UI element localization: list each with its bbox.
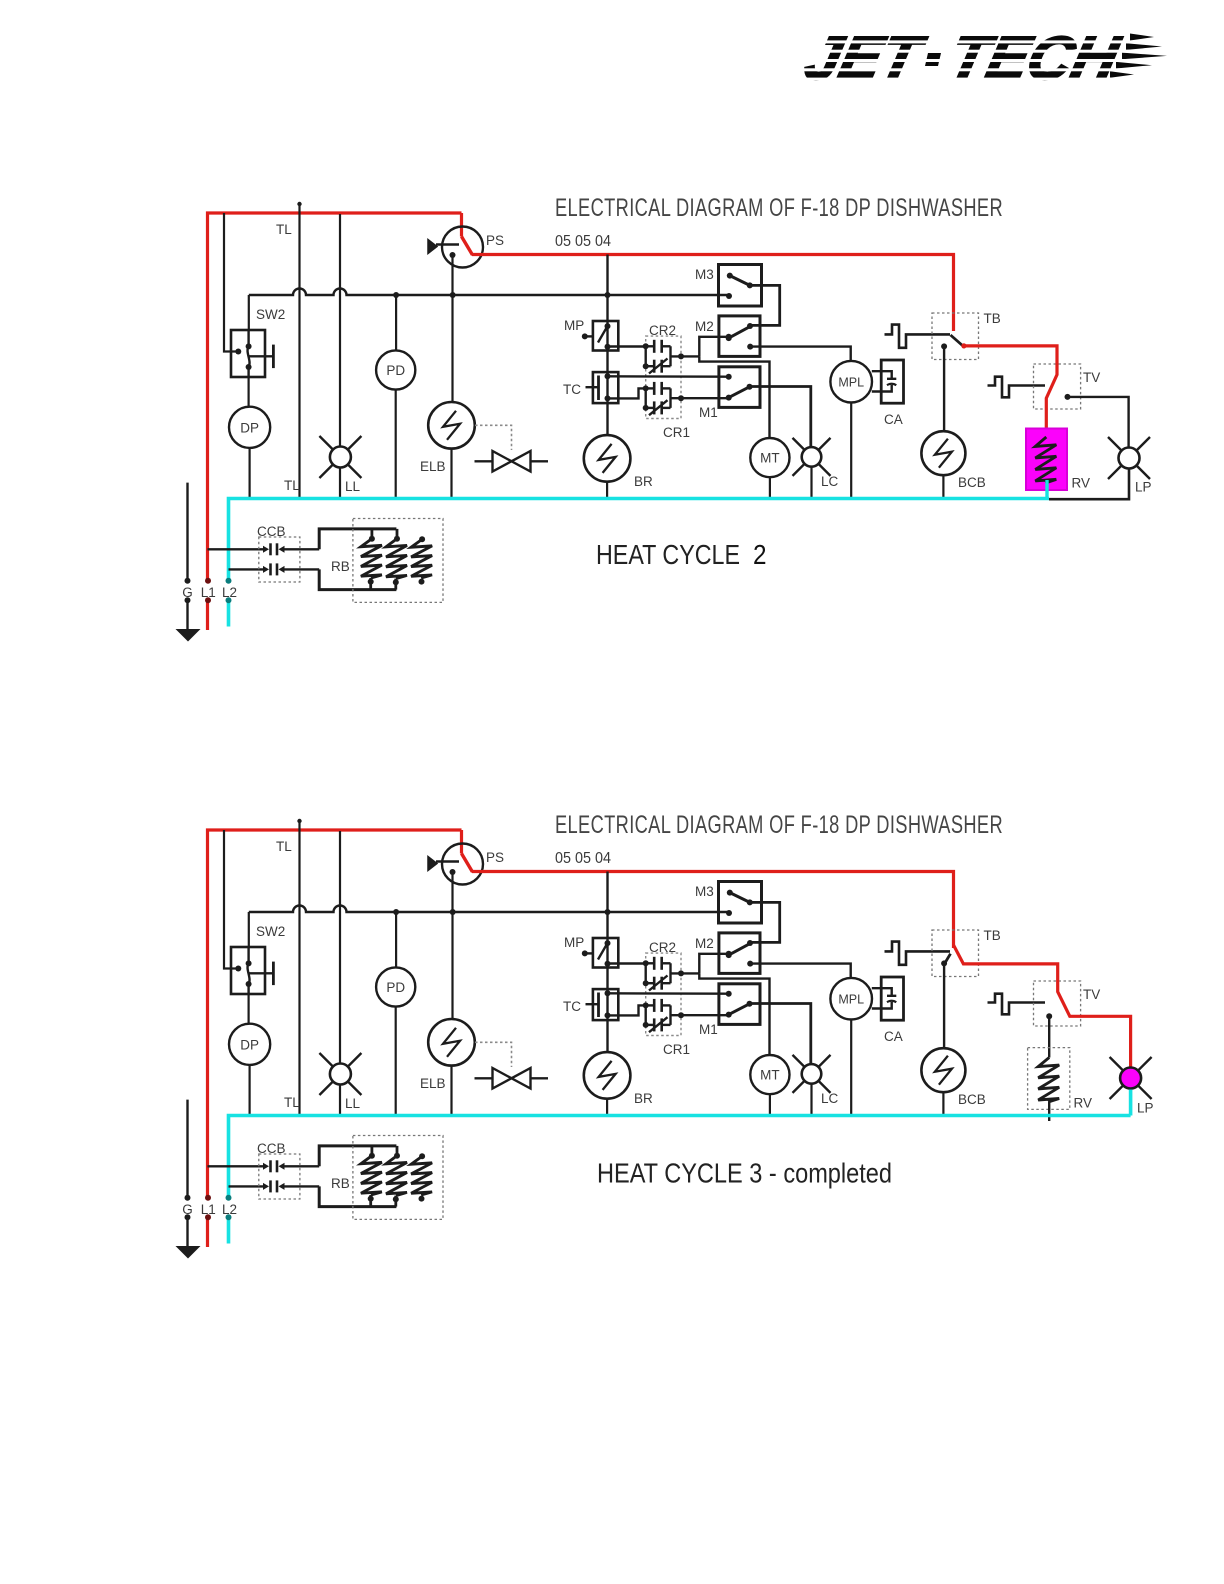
label M2: [695, 319, 714, 334]
switch SW2 box: [231, 947, 265, 994]
svg-text:G: G: [182, 585, 193, 600]
contact CR1-NC: [643, 1005, 671, 1032]
heater ELB: [428, 402, 475, 449]
svg-text:TECH: TECH: [943, 25, 1126, 93]
svg-text:M1: M1: [699, 405, 718, 420]
svg-text:BCB: BCB: [958, 1092, 986, 1107]
label TC: [563, 999, 581, 1014]
svg-text:M3: M3: [695, 267, 714, 282]
svg-text:MP: MP: [564, 935, 584, 950]
svg-text:M3: M3: [695, 884, 714, 899]
link ELB-valve (dashed): [475, 1042, 512, 1067]
contact CCB lower: [263, 563, 319, 575]
label M3: [695, 884, 714, 899]
label RB: [331, 1176, 350, 1191]
svg-text:TV: TV: [1083, 370, 1100, 385]
wire BR to neutral: [606, 1099, 608, 1114]
motor DP: [229, 1024, 270, 1065]
switch MP box: [593, 321, 618, 351]
wire red TB to TV to LP: [954, 945, 1131, 1067]
svg-text:PD: PD: [386, 980, 405, 995]
svg-text:LP: LP: [1135, 480, 1152, 495]
lamp LP: [1108, 437, 1150, 479]
wire L2 to CCB: [229, 568, 264, 570]
label SW2: [256, 924, 285, 939]
contactor M3 box: [719, 265, 762, 307]
wire MP to CR2: [605, 961, 646, 967]
label TV: [1083, 987, 1100, 1002]
caption HEAT CYCLE: [597, 1158, 892, 1189]
contactor M3 contact: [726, 273, 753, 299]
svg-text:MT: MT: [760, 451, 780, 466]
motor MPL: [830, 361, 872, 403]
svg-text:LC: LC: [821, 474, 839, 489]
svg-text:MT: MT: [760, 1068, 780, 1083]
node bus-ELB junction: [450, 909, 456, 915]
svg-text:MP: MP: [564, 318, 584, 333]
svg-text:TB: TB: [984, 928, 1001, 943]
contact CCB upper: [263, 1160, 319, 1172]
node L2 marks: [226, 578, 232, 604]
resistor RV (energised): [1026, 429, 1067, 491]
label MP: [564, 318, 584, 333]
wire CR2 to M2: [699, 334, 731, 357]
svg-text:05 05 04: 05 05 04: [555, 850, 611, 867]
label PS: [486, 233, 504, 248]
label CA: [884, 1029, 903, 1044]
ground lead: [186, 483, 188, 629]
wire MP to TC: [606, 968, 608, 990]
label LC: [821, 474, 839, 489]
wire ELB to neutral: [450, 449, 452, 497]
ground symbol: [176, 629, 201, 642]
switch PS body: [442, 844, 483, 885]
motor PD: [376, 350, 415, 389]
wire LP to neutral (cyan): [1129, 1090, 1133, 1116]
svg-text:LL: LL: [345, 1096, 361, 1111]
svg-text:CCB: CCB: [257, 1141, 286, 1156]
capacitor CA leads: [872, 988, 897, 1008]
contact CCB upper: [263, 543, 319, 555]
svg-text:RB: RB: [331, 1176, 350, 1191]
wire control bus: [249, 289, 729, 296]
wire red heat rail: [472, 255, 954, 332]
wire TC to BR: [606, 403, 608, 435]
label ELB: [420, 459, 446, 474]
switch SW2 box: [231, 330, 265, 377]
node bus-PD junction: [393, 909, 399, 915]
logo JET-TECH: [780, 25, 1180, 93]
wire bus to SW2: [248, 295, 250, 330]
label RV: [1074, 1096, 1093, 1111]
svg-text:TC: TC: [563, 999, 581, 1014]
label CR1: [663, 1042, 690, 1057]
wire TV to LP: [1068, 397, 1129, 447]
date label 05 05 04: [555, 233, 611, 250]
label TL bottom: [284, 478, 300, 493]
wire neutral bus (cyan): [229, 1116, 1131, 1244]
wire LL line: [339, 831, 341, 1114]
resistor RB element 3: [411, 1153, 432, 1201]
wire RB feed upper: [319, 1146, 396, 1166]
node G marks: [185, 1195, 191, 1221]
label LP: [1137, 1101, 1154, 1116]
label BCB: [958, 1092, 986, 1107]
wire red heat rail: [472, 872, 954, 949]
svg-text:CA: CA: [884, 412, 903, 427]
lamp LC: [793, 438, 831, 476]
wire red to MP column: [606, 872, 608, 939]
label G: [182, 585, 193, 600]
svg-text:M1: M1: [699, 1022, 718, 1037]
label CCB: [257, 524, 286, 539]
label L2: [222, 585, 237, 600]
node TL top tick: [297, 819, 301, 823]
svg-text:2: 2: [753, 539, 767, 570]
node PS output: [450, 869, 456, 875]
wire PD to neutral: [395, 1007, 397, 1114]
contact CCB lower: [263, 1180, 319, 1192]
switch TV box (dotted): [1034, 364, 1081, 409]
wire TL line: [298, 203, 300, 498]
wire TB to BCB: [943, 346, 945, 431]
wire bus to SW2: [248, 912, 250, 947]
svg-text:JET: JET: [799, 25, 932, 93]
node TB common: [941, 343, 947, 349]
heater BR: [584, 435, 631, 482]
wire red to MP column: [606, 255, 608, 322]
svg-text:TV: TV: [1083, 987, 1100, 1002]
wire CR2 to M2: [699, 951, 731, 974]
contactor M1 box: [719, 367, 760, 408]
actuator TB squiggle: [885, 942, 951, 965]
label M1: [699, 1022, 718, 1037]
label CR2: [649, 323, 676, 338]
svg-text:PS: PS: [486, 233, 504, 248]
wire MP to TC: [606, 351, 608, 373]
svg-text:05 05 04: 05 05 04: [555, 233, 611, 250]
actuator TV squiggle: [988, 994, 1046, 1015]
node bus-PD junction: [393, 292, 399, 298]
motor MPL: [830, 978, 872, 1020]
wire LC to neutral: [810, 467, 812, 497]
label M1: [699, 405, 718, 420]
wire BCB to neutral: [942, 475, 944, 497]
contactor M1 box: [719, 984, 760, 1025]
label CR2: [649, 940, 676, 955]
wire red PS feed drop: [460, 830, 463, 854]
wire CR2 to MT: [699, 973, 769, 1055]
wire MP to CR2: [605, 344, 646, 350]
svg-text:LL: LL: [345, 479, 361, 494]
ground symbol: [176, 1246, 201, 1259]
label TC: [563, 382, 581, 397]
wire L2 to CCB: [229, 1185, 264, 1187]
wire red PS feed drop: [460, 213, 463, 237]
ground lead: [186, 1100, 188, 1246]
svg-text:RV: RV: [1072, 476, 1091, 491]
svg-text:ELB: ELB: [420, 1076, 446, 1091]
node SW2 left contact: [235, 966, 241, 972]
svg-text:TB: TB: [984, 311, 1001, 326]
wire RB feed upper: [319, 529, 396, 549]
label TB: [984, 311, 1001, 326]
wire TC to M1: [608, 375, 729, 378]
svg-text:DP: DP: [240, 421, 259, 436]
wire L1 hot rail (red): [208, 830, 462, 1247]
contactor M2 box: [719, 933, 760, 974]
contact CR1-NC: [643, 388, 671, 415]
node TV-RV contact: [1046, 1013, 1052, 1019]
svg-text:HEAT CYCLE 3 - completed: HEAT CYCLE 3 - completed: [597, 1158, 892, 1189]
switch TB blade: [951, 335, 964, 346]
switch TV box (dotted): [1034, 981, 1081, 1026]
wire MPL to neutral: [850, 1020, 852, 1115]
svg-text:CR1: CR1: [663, 425, 690, 440]
switch TB box (dotted): [932, 930, 979, 977]
heater BCB: [921, 1048, 965, 1092]
wire LP to neutral: [1049, 470, 1129, 500]
contactor M3 contact: [726, 890, 753, 916]
contact CR1-NO: [643, 382, 671, 395]
breaker CCB box (dotted): [259, 537, 300, 582]
svg-text:CR2: CR2: [649, 940, 676, 955]
svg-text:G: G: [182, 1202, 193, 1217]
switch MP box: [593, 938, 618, 968]
resistor RB element 3: [411, 536, 432, 584]
switch SW2 contacts: [246, 947, 274, 994]
label TL bottom: [284, 1095, 300, 1110]
thermostat TC box: [593, 989, 618, 1020]
switch TB box (dotted): [932, 313, 979, 360]
resistor bank RB box (dotted): [353, 519, 443, 603]
svg-text:MPL: MPL: [838, 993, 864, 1007]
label BCB: [958, 475, 986, 490]
label TB: [984, 928, 1001, 943]
label RV: [1072, 476, 1091, 491]
contact CR2-NO: [643, 957, 671, 970]
label G: [182, 1202, 193, 1217]
thermostat TC box: [593, 372, 618, 403]
valve symbol: [475, 451, 549, 472]
svg-text:TL: TL: [284, 478, 300, 493]
switch PS port: [428, 240, 459, 254]
switch PS blade (red): [462, 237, 473, 256]
wire TC to CR1: [608, 1005, 646, 1015]
switch MP contact: [582, 321, 611, 351]
label LL: [345, 479, 361, 494]
node SW2 left contact: [235, 349, 241, 355]
label BR: [634, 474, 653, 489]
contact CR2-NC: [643, 963, 671, 990]
label TL top: [276, 222, 292, 237]
switch PS blade (red): [462, 854, 473, 873]
svg-text:M2: M2: [695, 936, 714, 951]
svg-text:CA: CA: [884, 1029, 903, 1044]
svg-text:L1: L1: [201, 585, 216, 600]
wire bus to PD: [395, 295, 397, 350]
wire MPL to neutral: [850, 403, 852, 498]
wire M1 to LC: [750, 387, 811, 447]
node TV-LP contact: [1065, 394, 1071, 400]
wire L1 hot rail (red): [208, 213, 462, 630]
wire bus to PD: [395, 912, 397, 967]
heater BR: [584, 1052, 631, 1099]
wire M3 output: [747, 902, 780, 946]
relay box CR2/CR1 (dashed): [646, 336, 681, 418]
resistor RB element 2: [386, 1146, 407, 1207]
wire MT to neutral: [769, 477, 771, 497]
wire RB feed lower: [319, 1186, 396, 1206]
heater BCB: [921, 431, 965, 475]
wire neutral bus (cyan): [229, 499, 1050, 627]
date label 05 05 04: [555, 850, 611, 867]
svg-text:LP: LP: [1137, 1101, 1154, 1116]
wire control bus: [249, 906, 729, 913]
label CR1: [663, 425, 690, 440]
svg-text:TL: TL: [276, 839, 292, 854]
contactor M2 contact: [726, 944, 754, 967]
svg-text:RB: RB: [331, 559, 350, 574]
svg-text:BR: BR: [634, 474, 653, 489]
label PS: [486, 850, 504, 865]
switch MP contact: [582, 938, 611, 968]
label BR: [634, 1091, 653, 1106]
wire TC to BR: [606, 1020, 608, 1052]
svg-text:SW2: SW2: [256, 924, 285, 939]
svg-text:L2: L2: [222, 585, 237, 600]
label CA: [884, 412, 903, 427]
wire BR to neutral: [606, 482, 608, 497]
svg-text:SW2: SW2: [256, 307, 285, 322]
svg-text:BR: BR: [634, 1091, 653, 1106]
relay box CR2/CR1 (dashed): [646, 953, 681, 1035]
resistor RB element 1: [361, 1146, 382, 1207]
svg-text:RV: RV: [1074, 1096, 1093, 1111]
label LP: [1135, 480, 1152, 495]
wire CR2 output: [671, 346, 700, 366]
svg-text:DP: DP: [240, 1038, 259, 1053]
label L1: [201, 585, 216, 600]
lamp LP (energised): [1110, 1057, 1152, 1099]
wire L1 to CCB: [208, 548, 264, 550]
lamp LC: [793, 1055, 831, 1093]
motor MT: [750, 438, 789, 477]
valve symbol: [475, 1068, 549, 1089]
resistor bank RB box (dotted): [353, 1136, 443, 1220]
motor DP: [229, 407, 270, 448]
contactor M3 box: [719, 882, 762, 924]
node TL top tick: [297, 202, 301, 206]
wire DP to neutral: [249, 448, 251, 497]
svg-text:MPL: MPL: [838, 376, 864, 390]
wire TC to CR1: [608, 388, 646, 398]
wire MT to neutral: [769, 1094, 771, 1114]
title text: [555, 194, 1003, 222]
capacitor CA box: [881, 977, 903, 1020]
actuator TB squiggle: [885, 325, 951, 348]
contactor M2 box: [719, 316, 760, 357]
contactor M2 contact: [726, 327, 754, 350]
wire PS to ELB: [451, 255, 453, 402]
wire M3 output: [747, 285, 780, 329]
label RB: [331, 559, 350, 574]
label TL top: [276, 839, 292, 854]
label ELB: [420, 1076, 446, 1091]
svg-text:ELB: ELB: [420, 459, 446, 474]
link ELB-valve (dashed): [475, 425, 512, 450]
motor MT: [750, 1055, 789, 1094]
node L1 marks: [205, 1195, 211, 1221]
wire CR1 output: [671, 388, 729, 408]
svg-text:BCB: BCB: [958, 475, 986, 490]
node L1 marks: [205, 578, 211, 604]
wire TV to RV: [1048, 1016, 1050, 1057]
svg-text:LC: LC: [821, 1091, 839, 1106]
label TV: [1083, 370, 1100, 385]
breaker CCB box (dotted): [259, 1154, 300, 1199]
resistor RB element 2: [386, 529, 407, 590]
node G marks: [185, 578, 191, 604]
svg-text:TL: TL: [276, 222, 292, 237]
label L1: [201, 1202, 216, 1217]
svg-text:CCB: CCB: [257, 524, 286, 539]
resistor RV: [1028, 1048, 1070, 1121]
svg-text:TC: TC: [563, 382, 581, 397]
wire neutral stub to RV (cyan): [1045, 480, 1048, 499]
node bus-ELB junction: [450, 292, 456, 298]
svg-text:PS: PS: [486, 850, 504, 865]
wire DP to neutral: [249, 1065, 251, 1114]
wire RB feed lower: [319, 569, 396, 589]
contact CR1-NO: [643, 999, 671, 1012]
wire SW2 feed: [224, 213, 238, 352]
contactor M1 contact: [726, 374, 753, 401]
capacitor CA box: [881, 360, 903, 403]
label L2: [222, 1202, 237, 1217]
svg-text:ELECTRICAL DIAGRAM OF F-18 DP: ELECTRICAL DIAGRAM OF F-18 DP DISHWASHER: [555, 811, 1003, 839]
svg-text:M2: M2: [695, 319, 714, 334]
wire M2 to MPL: [750, 347, 851, 361]
contact CR2-NC: [643, 346, 671, 373]
wire SW2 feed: [224, 830, 238, 969]
wire BCB to neutral: [942, 1092, 944, 1114]
label M3: [695, 267, 714, 282]
wire CR2 to MT: [699, 356, 769, 438]
switch PS body: [442, 227, 483, 268]
contact CR2-NO: [643, 340, 671, 353]
wire CR2 output: [671, 963, 700, 983]
wire red TB to TV: [961, 343, 1057, 437]
lamp LL: [319, 436, 361, 478]
wire ELB to neutral: [450, 1066, 452, 1114]
lamp LL: [319, 1053, 361, 1095]
motor PD: [376, 967, 415, 1006]
node bus-BR junction: [605, 292, 611, 298]
label SW2: [256, 307, 285, 322]
svg-text:L1: L1: [201, 1202, 216, 1217]
wire TL line: [298, 820, 300, 1115]
contactor M1 contact: [726, 991, 753, 1018]
wire LC to neutral: [810, 1084, 812, 1114]
heater ELB: [428, 1019, 475, 1066]
wire PS to ELB: [451, 872, 453, 1019]
label LC: [821, 1091, 839, 1106]
wire L1 to CCB: [208, 1165, 264, 1167]
capacitor CA leads: [872, 371, 897, 391]
switch SW2 contacts: [246, 330, 274, 377]
svg-text:HEAT CYCLE: HEAT CYCLE: [596, 539, 740, 570]
